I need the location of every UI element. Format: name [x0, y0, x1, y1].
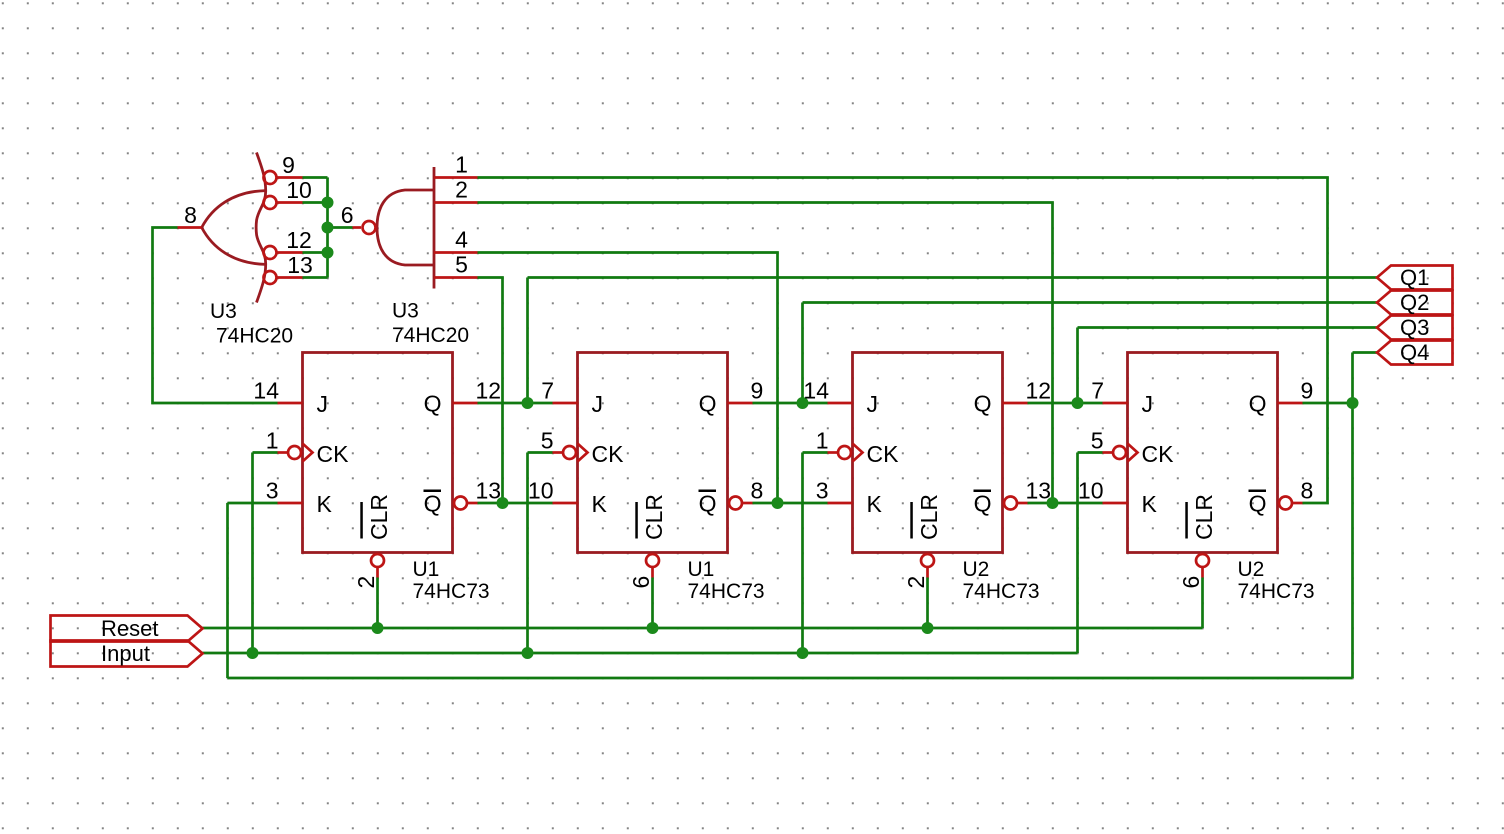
svg-text:12: 12 [286, 227, 312, 253]
svg-text:9: 9 [1301, 378, 1314, 404]
svg-text:13: 13 [287, 252, 313, 278]
U3B input pin 5 [434, 252, 478, 278]
wire CLR vert [926, 578, 929, 629]
svg-text:14: 14 [253, 378, 279, 404]
svg-text:J: J [867, 391, 879, 417]
svg-text:6: 6 [1178, 576, 1204, 589]
FF2 pin Q 9 [728, 378, 764, 404]
flip-flop U2 74HC73 (FF3) body [853, 353, 1003, 553]
svg-text:7: 7 [541, 378, 554, 404]
svg-text:74HC20: 74HC20 [392, 324, 469, 347]
svg-text:1: 1 [266, 428, 279, 454]
wire Q4 pin run [1303, 402, 1353, 405]
svg-text:74HC20: 74HC20 [216, 325, 293, 348]
FF2 pin names [592, 391, 717, 541]
svg-text:9: 9 [282, 152, 295, 178]
svg-text:CLR: CLR [366, 494, 392, 540]
svg-text:CLR: CLR [1191, 494, 1217, 540]
svg-text:CLR: CLR [641, 494, 667, 540]
wire CK vert [526, 453, 529, 654]
U3A input pin 9 (inverted) [264, 152, 303, 184]
svg-text:3: 3 [816, 478, 829, 504]
wire Qbar3 to K4 [1028, 502, 1103, 505]
U3B input pin 1 [434, 152, 478, 178]
svg-text:10: 10 [528, 478, 554, 504]
junction [322, 247, 334, 259]
wire Q3 vert [1076, 328, 1079, 404]
wire pin9 [303, 176, 328, 179]
FF4 pin Q 9 [1278, 378, 1314, 404]
label Q1 [1377, 265, 1453, 290]
svg-text:1: 1 [455, 152, 468, 178]
svg-text:J: J [592, 391, 604, 417]
FF3 pin K 3 [816, 478, 853, 504]
svg-text:K: K [592, 491, 608, 517]
svg-text:Reset: Reset [101, 616, 158, 641]
FF2 pin CK 5 [541, 428, 588, 462]
wire U3B pin4 to FF3 K net [478, 253, 778, 504]
svg-text:13: 13 [476, 478, 502, 504]
junction [797, 397, 809, 409]
wire Q4 vert feedback [1351, 353, 1354, 679]
wire Q2 label run [803, 301, 1378, 304]
wire CK stub run [803, 451, 828, 454]
label Q2 [1377, 290, 1453, 315]
FF4 pin K 10 [1078, 478, 1128, 504]
label Q4 [1377, 340, 1453, 365]
svg-text:Q: Q [699, 391, 717, 417]
junction [1072, 397, 1084, 409]
svg-text:74HC73: 74HC73 [963, 580, 1040, 603]
FF3 pin Q 12 [1003, 378, 1052, 404]
junction [1347, 397, 1359, 409]
FF3 pin names [867, 391, 992, 541]
wire CK vert [1076, 453, 1079, 654]
FF1 pin J 14 [253, 378, 302, 404]
svg-text:CK: CK [317, 441, 350, 467]
svg-text:4: 4 [455, 227, 468, 253]
wire Input bus [203, 652, 1078, 655]
wire Q3 label run [1078, 326, 1378, 329]
wire CK stub run [253, 451, 278, 454]
wire Q4 label run [1353, 351, 1378, 354]
svg-text:J: J [317, 391, 329, 417]
label Q3 [1377, 315, 1453, 340]
svg-text:13: 13 [1026, 478, 1052, 504]
svg-text:8: 8 [1301, 478, 1314, 504]
svg-text:Q: Q [424, 391, 442, 417]
svg-text:12: 12 [1026, 378, 1052, 404]
wire CLR vert [1201, 578, 1204, 629]
svg-text:74HC73: 74HC73 [413, 580, 490, 603]
svg-text:Q: Q [699, 491, 717, 517]
svg-text:8: 8 [751, 478, 764, 504]
wire CK vert [251, 453, 254, 654]
svg-text:K: K [867, 491, 883, 517]
junction [922, 622, 934, 634]
flip-flop U1 74HC73 (FF1) body [303, 353, 453, 553]
svg-text:CK: CK [1142, 441, 1175, 467]
svg-text:14: 14 [803, 378, 829, 404]
junction [522, 397, 534, 409]
FF1 pin K 3 [266, 478, 303, 504]
svg-text:CK: CK [867, 441, 900, 467]
wire Q3 to J4 [1028, 402, 1103, 405]
FF4 pin CK 5 [1091, 428, 1138, 462]
svg-text:6: 6 [341, 202, 354, 228]
junction [797, 647, 809, 659]
U3B output pin 6 (inverted) [341, 202, 376, 234]
svg-text:9: 9 [751, 378, 764, 404]
FF3 pin CK 1 [816, 428, 863, 462]
U3B input pin 4 [434, 227, 478, 253]
svg-text:K: K [317, 491, 333, 517]
svg-text:K: K [1142, 491, 1158, 517]
FF4 pin J 7 [1091, 378, 1127, 404]
junction [497, 497, 509, 509]
FF2 pin CLR 6 [628, 554, 659, 589]
wire feedback bottom [228, 677, 1353, 680]
svg-text:74HC73: 74HC73 [1238, 580, 1315, 603]
svg-text:U2: U2 [963, 558, 990, 581]
wire Q2 to J3 [753, 402, 828, 405]
U3A input pin 10 (inverted) [264, 177, 312, 209]
wire U3B-out to bus [328, 226, 353, 229]
svg-text:6: 6 [628, 576, 654, 589]
svg-text:3: 3 [266, 478, 279, 504]
NAND gate U3A 74HC20 (DeMorgan) [202, 153, 266, 303]
FF3 pin J 14 [803, 378, 852, 404]
wire pin10 [303, 201, 328, 204]
svg-text:J: J [1142, 391, 1154, 417]
FF4 pin CLR 6 [1178, 554, 1209, 589]
svg-text:10: 10 [1078, 478, 1104, 504]
svg-text:74HC73: 74HC73 [688, 580, 765, 603]
wire pin13 [303, 276, 328, 279]
wire CLR vert [376, 578, 379, 629]
wire K1 [228, 502, 278, 505]
svg-text:Q2: Q2 [1400, 290, 1429, 315]
wire CK stub run [1078, 451, 1103, 454]
FF4 pin Qbar 8 [1279, 478, 1313, 510]
FF1 pin Qbar 13 [454, 478, 501, 510]
svg-text:U3: U3 [210, 300, 237, 323]
junction [1047, 497, 1059, 509]
svg-text:10: 10 [286, 177, 312, 203]
wire Q1 vert [526, 278, 529, 404]
wire CK vert [801, 453, 804, 654]
junction [322, 197, 334, 209]
wire Q1 label run [528, 276, 1378, 279]
svg-text:Input: Input [101, 641, 150, 666]
FF1 pin CK 1 [266, 428, 313, 462]
svg-text:5: 5 [455, 252, 468, 278]
svg-text:Q: Q [1249, 391, 1267, 417]
junction [772, 497, 784, 509]
U3B input pin 2 [434, 177, 478, 203]
wire pin12 [303, 251, 328, 254]
svg-text:U1: U1 [688, 558, 715, 581]
svg-text:8: 8 [184, 202, 197, 228]
svg-text:Q: Q [974, 491, 992, 517]
wire U3A-out to FF1 J [153, 228, 278, 404]
label Reset [51, 616, 203, 642]
svg-text:2: 2 [455, 177, 468, 203]
wire Qbar2 to K3 [753, 502, 828, 505]
U3A input pin 12 (inverted) [264, 227, 312, 259]
svg-text:Q: Q [1249, 491, 1267, 517]
flip-flop U1 74HC73 (FF2) body [578, 353, 728, 553]
svg-text:2: 2 [903, 576, 929, 589]
svg-text:5: 5 [1091, 428, 1104, 454]
NAND gate U3B 74HC20 [377, 167, 434, 289]
svg-text:Q: Q [974, 391, 992, 417]
svg-text:Q: Q [424, 491, 442, 517]
wire Q1 to J2 [478, 402, 553, 405]
junction [522, 647, 534, 659]
svg-text:5: 5 [541, 428, 554, 454]
svg-text:U3: U3 [392, 300, 419, 323]
FF1 pin CLR 2 [353, 554, 384, 589]
wire Q2 vert [801, 303, 804, 404]
svg-text:Q4: Q4 [1400, 340, 1429, 365]
junction [372, 622, 384, 634]
svg-text:Q1: Q1 [1400, 265, 1429, 290]
wire CLR vert [651, 578, 654, 629]
svg-text:U1: U1 [413, 558, 440, 581]
wire Qbar1 to K2 [478, 502, 553, 505]
wire feedback left vert [226, 503, 229, 678]
FF2 pin J 7 [541, 378, 577, 404]
wire CK stub run [528, 451, 553, 454]
FF1 pin Q 12 [453, 378, 502, 404]
svg-text:1: 1 [816, 428, 829, 454]
FF2 pin Qbar 8 [729, 478, 763, 510]
wire U3B pin5 to FF2 K net [478, 278, 503, 504]
FF3 pin CLR 2 [903, 554, 934, 589]
U3A input pin 13 (inverted) [264, 252, 313, 284]
svg-text:CK: CK [592, 441, 625, 467]
FF4 pin names [1142, 391, 1267, 541]
svg-text:12: 12 [476, 378, 502, 404]
wire U3B pin2 to FF4 K net [478, 203, 1053, 504]
wire U3A input bus [326, 178, 329, 278]
wire U3B pin1 to FF4 Qbar [478, 178, 1328, 504]
svg-text:2: 2 [353, 576, 379, 589]
FF3 pin Qbar 13 [1004, 478, 1051, 510]
junction [247, 647, 259, 659]
FF1 pin names [317, 391, 442, 541]
label Input [51, 641, 203, 667]
svg-text:CLR: CLR [916, 494, 942, 540]
svg-text:U2: U2 [1238, 558, 1265, 581]
svg-text:7: 7 [1091, 378, 1104, 404]
flip-flop U2 74HC73 (FF4) body [1128, 353, 1278, 553]
wire Reset bus [203, 627, 1203, 630]
FF2 pin K 10 [528, 478, 578, 504]
svg-text:Q3: Q3 [1400, 315, 1429, 340]
junction [322, 222, 334, 234]
junction [647, 622, 659, 634]
U3A output pin 8 [178, 202, 203, 228]
